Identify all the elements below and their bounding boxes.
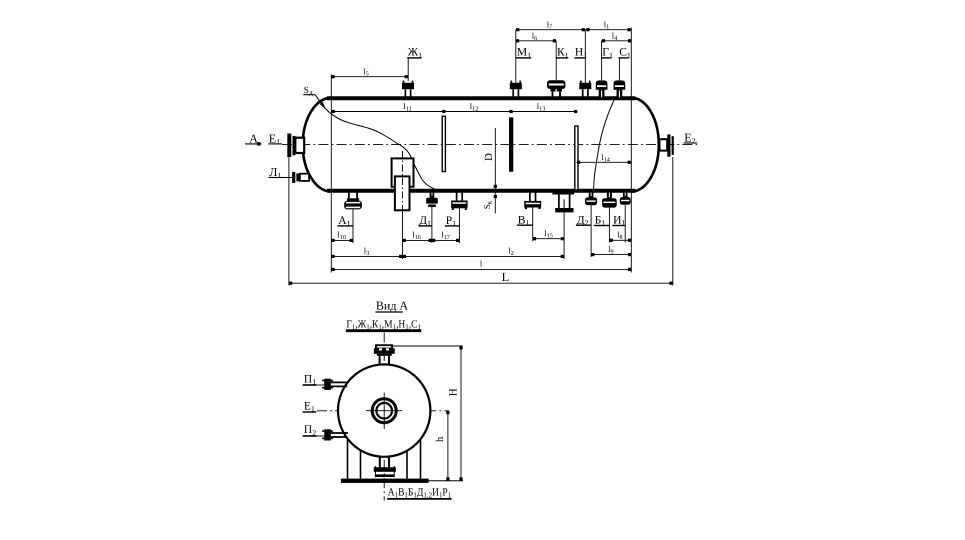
- svg-text:h: h: [435, 436, 446, 442]
- left tangent extension line: [330, 75, 332, 273]
- nozzle А1: [344, 192, 362, 209]
- nozzle М1: [510, 81, 522, 98]
- dimension l15: [533, 228, 564, 240]
- dimension l9: [591, 244, 631, 256]
- view A nozzle list label: [346, 318, 421, 331]
- view A title: [375, 299, 408, 313]
- nozzle С1: [614, 80, 626, 97]
- dimension l14: [576, 152, 631, 164]
- dimension l2: [403, 246, 565, 258]
- svg-text:Sд: Sд: [304, 86, 313, 97]
- dimension row l11 l12 l13: [331, 101, 577, 113]
- dimension l16: [403, 230, 432, 242]
- label С1: [619, 47, 631, 60]
- dimension l3: [331, 246, 402, 258]
- nozzle Ж1: [402, 81, 414, 98]
- extension line М1: [515, 30, 517, 83]
- label Р1 bottom: [445, 215, 460, 228]
- dimension l17: [432, 230, 460, 242]
- sump pocket: [392, 158, 414, 210]
- nozzle Е2 right head: [660, 134, 674, 156]
- vessel shell top line: [327, 96, 636, 100]
- label К1: [556, 47, 568, 60]
- L extension lines: [289, 157, 673, 286]
- sump centerline: [402, 151, 404, 259]
- dimension l4: [602, 30, 632, 42]
- extension line Г1: [601, 41, 603, 81]
- nozzle Д2: [585, 193, 597, 206]
- vessel shell bottom line: [327, 189, 636, 193]
- nozzle Д1: [426, 193, 438, 207]
- label Г1: [602, 47, 613, 60]
- svg-text:А: А: [249, 131, 258, 145]
- label В1 bottom: [517, 214, 533, 227]
- nozzle П1 view A: [303, 373, 348, 390]
- dimension Н view A: [392, 346, 463, 481]
- svg-text:Н: Н: [447, 388, 459, 396]
- label М1: [516, 47, 532, 60]
- label Л1: [269, 165, 284, 180]
- dimension l1: [585, 19, 631, 31]
- extension line Ж1: [407, 58, 409, 81]
- nozzle Е1 left head: [287, 134, 304, 158]
- label Е1 view A: [303, 400, 317, 413]
- dimension l8: [609, 230, 631, 242]
- view arrow А: [245, 131, 262, 145]
- dimension l5: [331, 66, 408, 78]
- left elliptical head: [303, 98, 332, 192]
- label Е1: [268, 131, 282, 146]
- dimension D with Sк: [482, 128, 497, 213]
- nozzle К1: [547, 80, 565, 97]
- nozzle Г1: [596, 80, 608, 97]
- label Е2: [684, 130, 698, 145]
- internal curve right: [594, 99, 615, 190]
- label Ж1: [407, 47, 422, 60]
- label Д1 bottom: [418, 215, 432, 228]
- label Д2 bottom: [576, 214, 591, 227]
- view A top nozzle: [374, 345, 395, 365]
- central nozzle Е1 end view: [366, 393, 402, 429]
- bottom nozzle extension lines: [353, 205, 625, 259]
- nozzle И1: [620, 193, 631, 205]
- vessel end circle: [338, 364, 430, 456]
- svg-text:D: D: [483, 153, 495, 161]
- extension line С1: [618, 58, 620, 80]
- support legs: [348, 438, 421, 479]
- svg-text:А1В1Б1Д1,2И1Р1: А1В1Б1Д1,2И1Р1: [388, 486, 452, 499]
- right tangent extension line: [630, 28, 632, 273]
- right elliptical head: [631, 98, 659, 192]
- svg-text:Вид А: Вид А: [376, 299, 409, 313]
- dimension l10: [331, 230, 353, 242]
- view A bottom nozzle list label: [387, 486, 451, 499]
- label И1 bottom: [612, 214, 625, 227]
- baffle 2: [509, 117, 513, 171]
- support / manhole stool: [552, 192, 574, 212]
- dimension L overall: [289, 270, 673, 285]
- label А1 bottom: [337, 215, 353, 228]
- nozzle В1: [524, 192, 541, 209]
- view A vertical centerline: [383, 333, 385, 501]
- nozzle Н1: [579, 81, 591, 98]
- nozzle Р1: [451, 192, 467, 210]
- baffle 3: [575, 126, 578, 190]
- nozzle Б1: [602, 193, 617, 208]
- svg-text:L: L: [502, 270, 510, 284]
- support base plate: [341, 479, 463, 483]
- label Sд with leader: [303, 86, 325, 109]
- nozzle Л1: [283, 172, 309, 183]
- label Н1: [574, 47, 587, 60]
- baffle 1: [442, 116, 445, 171]
- dimension h view A: [435, 411, 450, 481]
- nozzle П2 view A: [303, 424, 348, 440]
- internal S-curve left: [319, 100, 440, 191]
- extension line К1: [555, 41, 557, 81]
- dimension l6: [516, 30, 556, 42]
- horizontal centerline: [282, 144, 697, 146]
- view A bottom nozzle: [374, 457, 396, 477]
- dimension l shell length: [331, 259, 631, 271]
- dimension l7: [516, 19, 586, 31]
- extension line Н1: [584, 30, 586, 83]
- label Б1 bottom: [594, 214, 610, 227]
- view A horizontal centerline: [317, 410, 449, 412]
